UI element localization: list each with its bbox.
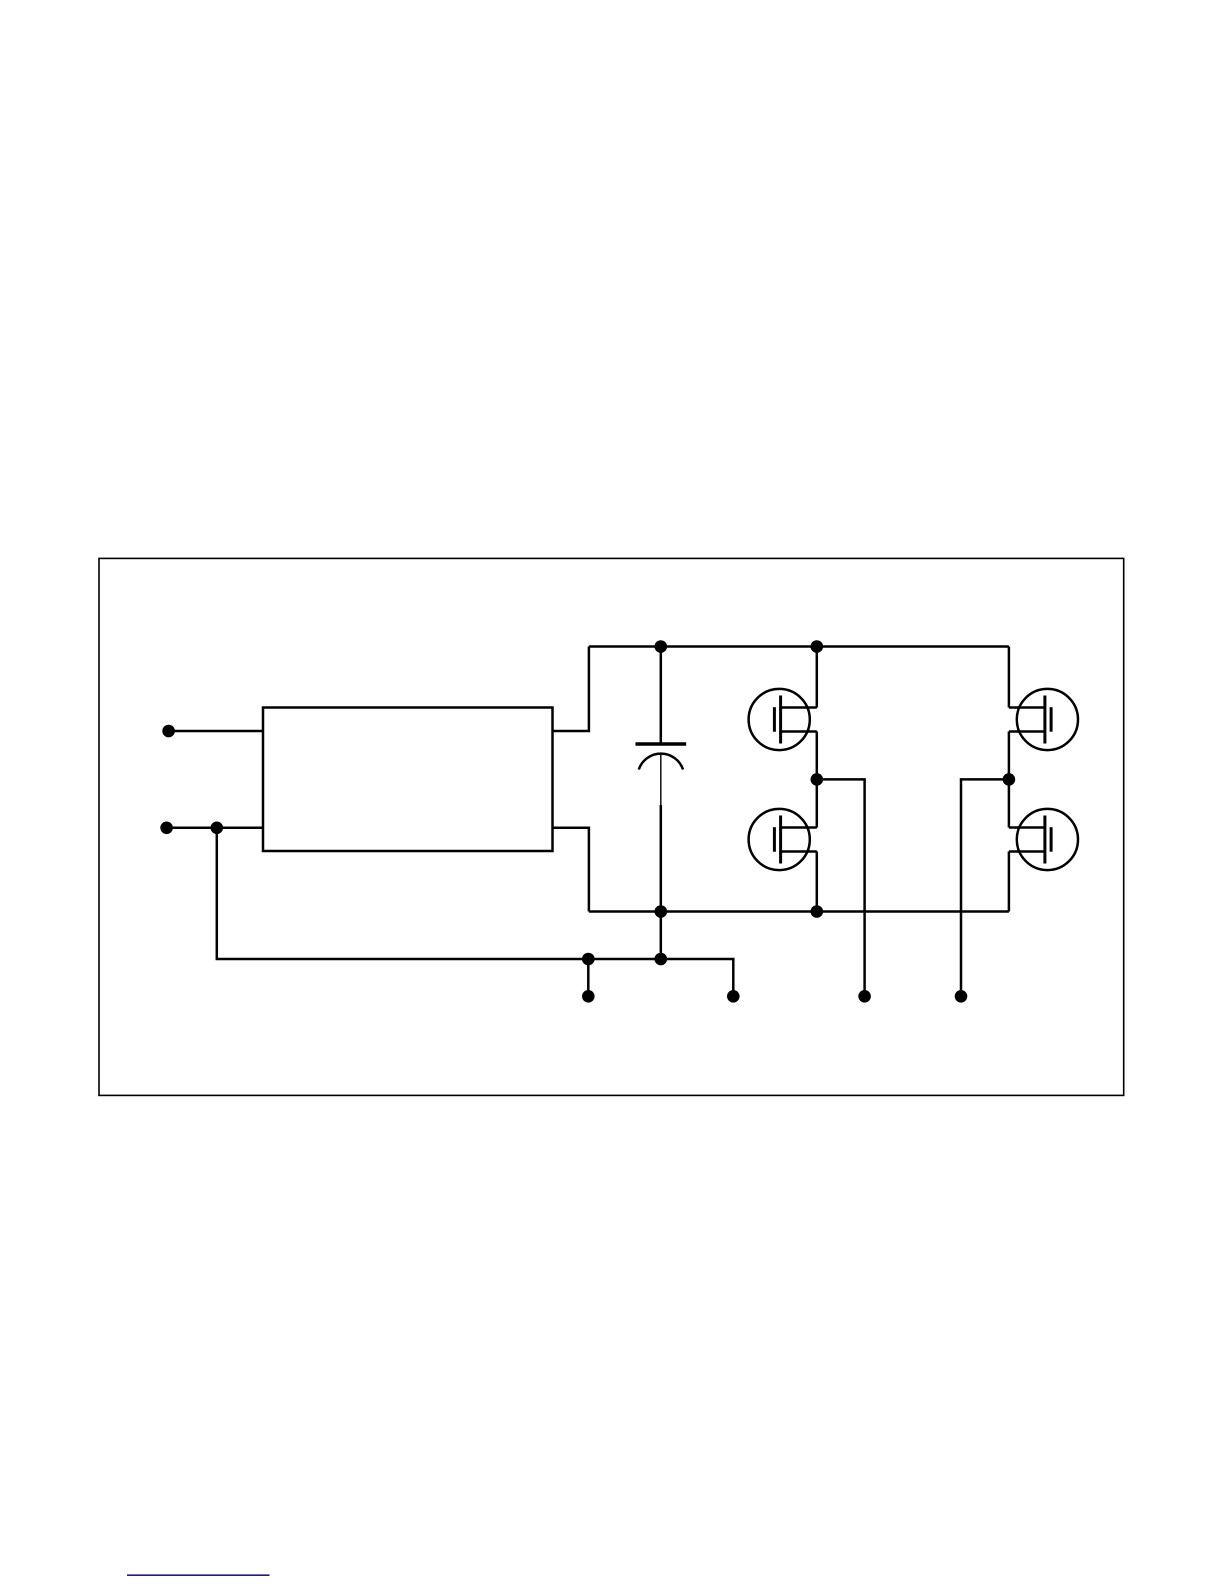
wire cap node to lower bus — [660, 912, 663, 960]
wire junction drop — [217, 828, 734, 997]
node Q1 drain junction — [811, 640, 824, 653]
transistor Q1 — [749, 689, 817, 750]
node input junction — [211, 822, 224, 835]
wire bottom rail — [589, 910, 1009, 913]
node terminal 4 — [955, 990, 968, 1003]
wire terminal drop left — [587, 959, 590, 996]
node terminal 3 — [858, 990, 871, 1003]
wire rect bottom out — [553, 828, 589, 912]
node terminal 2 — [727, 990, 740, 1003]
link underline — [127, 1574, 270, 1576]
node B junction — [1003, 773, 1016, 786]
transistor Q4 — [1009, 809, 1078, 870]
node cap bottom junction — [655, 905, 668, 918]
wire Q1 source to Q2 drain — [816, 732, 819, 828]
node A junction — [811, 773, 824, 786]
wire Q3 source to Q4 drain — [1008, 732, 1011, 828]
rectifier block U1 — [263, 708, 553, 852]
wire top rail down to Q3 — [1008, 647, 1011, 708]
wire top rail — [589, 645, 1009, 648]
wire input bottom — [167, 827, 263, 830]
node cap top junction — [655, 640, 668, 653]
node input top terminal — [162, 725, 175, 738]
transistor Q3 — [1009, 689, 1078, 750]
node input bottom terminal — [160, 822, 173, 835]
node Q2 source junction — [811, 905, 824, 918]
wire node B branch — [961, 779, 1009, 996]
capacitor C1 bottom lead — [660, 754, 662, 912]
wire top rail down to Q1 — [816, 647, 819, 708]
wire input top — [169, 730, 263, 733]
wire Q2 source down — [816, 852, 819, 912]
transistor Q2 — [749, 809, 817, 870]
node lower bus junction right — [655, 953, 668, 966]
wire rect top out — [553, 647, 589, 732]
wire Q4 source down — [1008, 852, 1011, 912]
node lower bus junction left — [582, 953, 595, 966]
node terminal 1 — [582, 990, 595, 1003]
capacitor C1 plates — [636, 744, 687, 770]
capacitor C1 top lead — [660, 647, 663, 744]
wire node A branch — [817, 779, 865, 996]
border frame — [99, 558, 1124, 1095]
